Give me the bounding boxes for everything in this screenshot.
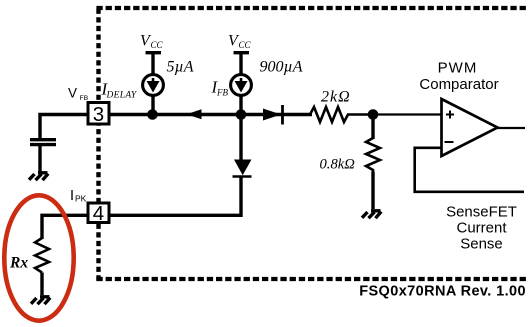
svg-text:I: I <box>70 188 74 204</box>
svg-text:DELAY: DELAY <box>106 91 138 101</box>
svg-text:V: V <box>68 86 77 101</box>
svg-text:5µA: 5µA <box>167 59 194 76</box>
svg-text:PWM: PWM <box>438 60 478 77</box>
svg-text:Rx: Rx <box>9 255 28 272</box>
svg-text:4: 4 <box>93 202 104 225</box>
svg-text:FB: FB <box>216 88 228 98</box>
svg-text:CC: CC <box>239 40 252 50</box>
svg-text:PK: PK <box>75 194 87 204</box>
svg-text:0.8kΩ: 0.8kΩ <box>320 157 356 173</box>
svg-text:Comparator: Comparator <box>419 76 498 93</box>
svg-text:Current: Current <box>456 220 507 237</box>
svg-text:FB: FB <box>80 95 89 102</box>
svg-text:CC: CC <box>151 40 164 50</box>
svg-text:Sense: Sense <box>460 236 503 253</box>
svg-text:FSQ0x70RNA Rev. 1.00: FSQ0x70RNA Rev. 1.00 <box>359 284 526 300</box>
svg-text:2kΩ: 2kΩ <box>321 89 351 106</box>
svg-text:3: 3 <box>93 103 104 126</box>
svg-text:900µA: 900µA <box>260 59 303 76</box>
svg-text:SenseFET: SenseFET <box>446 204 517 221</box>
